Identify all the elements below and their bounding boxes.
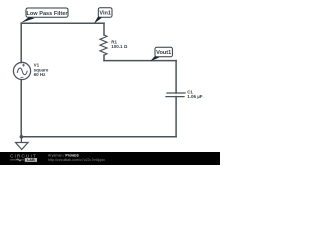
wire R1 bottom lead: [103, 55, 105, 60]
svg-text:LAB: LAB: [27, 158, 35, 162]
svg-text:1.06 µF: 1.06 µF: [187, 94, 203, 99]
wire V1 top lead: [20, 23, 22, 62]
svg-text:http://circuitlab.com/c7c22c7m: http://circuitlab.com/c7c22c7m6jqdx: [48, 158, 105, 162]
svg-text:100.1 Ω: 100.1 Ω: [111, 44, 128, 49]
footer logo LAB box: [25, 158, 37, 162]
ground: [16, 137, 29, 150]
V1 minus sign: [21, 76, 24, 78]
net flag Vin1 pointer: [94, 17, 102, 24]
wire top horizontal Vin net: [21, 22, 104, 24]
net flag Vout1 box: [155, 47, 172, 57]
V1 plus sign: [22, 64, 25, 67]
wire C1 top lead: [175, 61, 177, 93]
wire V1 bottom lead: [20, 80, 22, 137]
voltage source V1: [13, 62, 30, 79]
wire bottom horizontal ground net: [21, 136, 176, 138]
footer logo line: [10, 159, 24, 161]
annotation Low Pass Filter box: [26, 8, 68, 17]
footer black bar: [0, 152, 220, 165]
wire R1 top lead: [103, 23, 105, 35]
capacitor C1: [166, 93, 185, 97]
wire Vout horizontal: [104, 60, 176, 62]
node junction dot: [20, 135, 24, 139]
svg-text:60 Hz: 60 Hz: [34, 72, 47, 77]
net flag Vout1 pointer: [150, 56, 159, 62]
resistor R1: [100, 35, 107, 55]
annotation Low Pass Filter pointer: [21, 17, 35, 23]
footer logo sine: [17, 159, 21, 161]
net flag Vin1 box: [98, 8, 112, 18]
svg-text:Vout1: Vout1: [156, 50, 171, 56]
wire C1 bottom lead: [175, 97, 177, 137]
svg-text:Vin1: Vin1: [99, 11, 111, 17]
V1 sine symbol: [17, 68, 27, 75]
svg-text:Low Pass Filter: Low Pass Filter: [26, 11, 68, 17]
